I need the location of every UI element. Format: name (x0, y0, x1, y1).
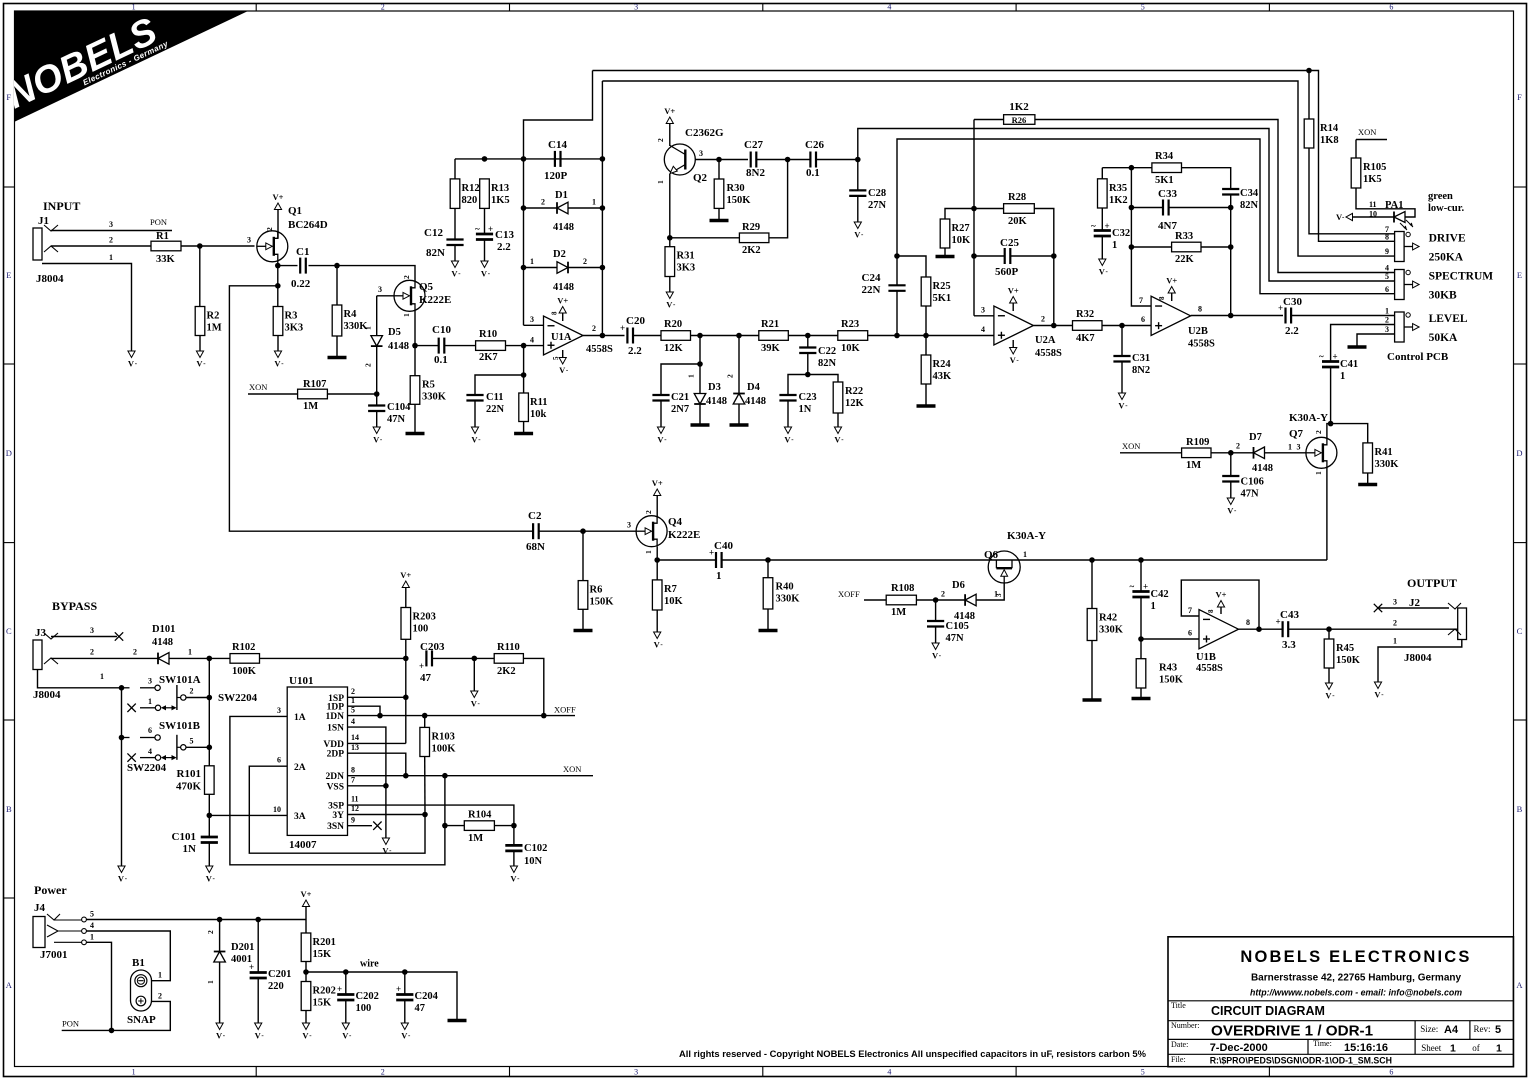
svg-text:C202: C202 (356, 991, 379, 1002)
potentiometer connector PA1 DRIVE (1395, 232, 1466, 264)
V- power (784, 427, 794, 445)
svg-text:3: 3 (699, 149, 703, 158)
junction (971, 253, 977, 259)
capacitor C104 (368, 402, 411, 425)
wire (376, 411, 378, 427)
wire (484, 208, 486, 234)
wire (208, 815, 210, 837)
transistor Q2 (664, 144, 695, 175)
V- power (216, 1023, 226, 1041)
svg-text:Q1: Q1 (288, 205, 302, 217)
wire (454, 245, 456, 261)
capacitor C13 (475, 224, 493, 240)
resistor R24 (921, 355, 952, 384)
border column divider (762, 4, 764, 12)
V- power (401, 1023, 411, 1041)
svg-text:U101: U101 (289, 675, 313, 687)
resistor R22 (833, 382, 864, 413)
svg-text:3: 3 (995, 593, 1003, 597)
svg-text:R:\$PRO\PEDS\DSGN\ODR-1\OD-1_S: R:\$PRO\PEDS\DSGN\ODR-1\OD-1_SM.SCH (1210, 1056, 1392, 1066)
svg-text:R11: R11 (530, 397, 548, 408)
svg-text:CIRCUIT DIAGRAM: CIRCUIT DIAGRAM (1211, 1004, 1325, 1018)
svg-text:+: + (1333, 352, 1338, 362)
ground (574, 629, 593, 633)
svg-text:1K5: 1K5 (1363, 174, 1382, 185)
svg-text:R109: R109 (1186, 437, 1209, 448)
svg-text:100K: 100K (232, 666, 257, 677)
svg-text:C28: C28 (868, 188, 886, 199)
svg-text:D6: D6 (952, 580, 965, 591)
svg-text:2: 2 (1385, 316, 1389, 325)
svg-text:F: F (6, 92, 11, 102)
wire (305, 907, 307, 920)
svg-text:4: 4 (90, 921, 94, 930)
junction (511, 823, 517, 829)
wire (1288, 628, 1329, 630)
wire (1141, 638, 1199, 640)
svg-text:V+: V+ (273, 192, 284, 202)
svg-text:C31: C31 (1132, 353, 1150, 364)
svg-text:1K2: 1K2 (1109, 195, 1128, 206)
junction (736, 333, 742, 339)
resistor R14 (1304, 119, 1339, 148)
wire (513, 826, 515, 846)
svg-text:R24: R24 (933, 359, 952, 370)
svg-text:R41: R41 (1375, 447, 1393, 458)
wire (230, 716, 445, 864)
capacitor C204 (396, 984, 439, 1014)
wire (656, 560, 658, 580)
svg-text:C106: C106 (1241, 477, 1264, 488)
svg-text:4148: 4148 (1252, 463, 1273, 474)
svg-text:R29: R29 (742, 222, 760, 233)
svg-text:Q6: Q6 (984, 549, 999, 561)
V- power (302, 1023, 312, 1041)
junction (805, 333, 811, 339)
svg-text:4: 4 (530, 336, 534, 345)
no-connect (373, 822, 381, 830)
svg-text:Q5: Q5 (419, 281, 434, 293)
diode D3 (694, 382, 727, 407)
svg-text:C21: C21 (671, 392, 689, 403)
svg-text:C101: C101 (172, 831, 196, 843)
wire (1211, 452, 1254, 454)
svg-text:2: 2 (206, 930, 215, 934)
svg-text:+: + (249, 962, 254, 972)
svg-text:1M: 1M (891, 607, 906, 618)
svg-text:U1B: U1B (1196, 652, 1216, 663)
resistor R1 (151, 231, 181, 265)
wire (695, 159, 748, 161)
capacitor C22 (799, 346, 836, 369)
junction (716, 157, 722, 163)
wire (1102, 325, 1151, 327)
svg-text:R107: R107 (303, 379, 326, 390)
svg-text:27N: 27N (868, 200, 887, 211)
svg-text:1SN: 1SN (327, 724, 344, 734)
svg-text:File:: File: (1171, 1055, 1186, 1064)
wire (348, 814, 426, 816)
svg-text:13: 13 (351, 743, 359, 752)
switch SW101B (122, 720, 201, 760)
svg-text:82N: 82N (1240, 200, 1259, 211)
wire (348, 775, 594, 777)
resistor R32 (1073, 309, 1103, 344)
wire (1230, 195, 1232, 316)
svg-text:2K2: 2K2 (497, 666, 516, 677)
svg-text:R33: R33 (1175, 231, 1193, 242)
junction (1138, 557, 1144, 563)
svg-text:0.22: 0.22 (291, 278, 311, 290)
svg-text:47: 47 (420, 672, 432, 684)
capacitor C202 (337, 984, 379, 1014)
junction (521, 343, 527, 349)
svg-text:J4: J4 (34, 902, 46, 914)
svg-text:3: 3 (1385, 325, 1389, 334)
resistor R3 (273, 307, 303, 336)
svg-text:1M: 1M (303, 401, 318, 412)
svg-text:1: 1 (1151, 601, 1156, 612)
svg-text:R103: R103 (432, 731, 455, 742)
wire (219, 920, 221, 952)
svg-text:OUTPUT: OUTPUT (1407, 576, 1457, 590)
junction (894, 253, 900, 259)
diode D2 (553, 249, 574, 293)
wire (787, 401, 789, 428)
wire (896, 291, 898, 336)
border column divider (1015, 4, 1017, 12)
wire (208, 794, 210, 815)
svg-text:9: 9 (1385, 247, 1389, 256)
wire (1101, 168, 1103, 179)
wire (718, 208, 720, 219)
svg-text:D3: D3 (708, 382, 721, 393)
svg-text:R40: R40 (776, 582, 794, 593)
svg-text:K222E: K222E (419, 294, 451, 306)
svg-text:2: 2 (351, 687, 355, 696)
svg-text:1: 1 (656, 180, 665, 184)
wire (1035, 120, 1395, 273)
junction (1228, 205, 1234, 211)
resistor R28 (1004, 192, 1035, 227)
wire (1091, 641, 1093, 699)
svg-text:R2: R2 (207, 311, 220, 322)
svg-text:1: 1 (1393, 637, 1397, 646)
junction (1129, 244, 1135, 250)
svg-text:D: D (1516, 448, 1522, 458)
svg-text:R7: R7 (664, 584, 677, 595)
svg-text:3: 3 (90, 626, 94, 635)
wire (309, 265, 338, 267)
svg-text:1: 1 (592, 198, 596, 207)
svg-text:330K: 330K (422, 392, 447, 403)
svg-text:R104: R104 (468, 810, 492, 821)
junction (412, 343, 418, 349)
svg-text:5K1: 5K1 (1155, 175, 1174, 186)
wire (1131, 168, 1151, 306)
svg-text:39K: 39K (761, 343, 781, 354)
capacitor C203 (419, 650, 432, 671)
svg-text:C2362G: C2362G (685, 127, 724, 139)
diode D1 (553, 190, 574, 233)
wire (718, 160, 720, 180)
junction (600, 205, 606, 211)
no-connect (127, 704, 135, 712)
svg-text:2: 2 (1041, 315, 1045, 324)
wire (974, 315, 994, 317)
wire (1331, 424, 1368, 443)
wire (455, 158, 602, 160)
svg-text:C: C (6, 626, 12, 636)
svg-text:J1: J1 (38, 215, 49, 227)
resistor R35 (1098, 179, 1128, 208)
wire (1355, 140, 1357, 159)
svg-text:2: 2 (133, 648, 137, 657)
svg-text:1: 1 (644, 550, 653, 554)
svg-text:8N2: 8N2 (746, 167, 765, 179)
svg-text:470K: 470K (176, 781, 202, 793)
V- power (654, 632, 664, 650)
resistor R2 (195, 307, 222, 336)
svg-text:R22: R22 (845, 386, 863, 397)
wire (277, 261, 279, 265)
connector J3 (33, 627, 61, 701)
svg-text:C204: C204 (415, 991, 439, 1002)
svg-text:~: ~ (1130, 582, 1135, 592)
svg-text:Barnerstrasse 42, 22765 Hambur: Barnerstrasse 42, 22765 Hamburg, Germany (1251, 973, 1462, 984)
svg-text:1: 1 (716, 570, 722, 582)
wire (1367, 473, 1369, 483)
svg-text:120P: 120P (544, 170, 568, 182)
svg-text:XON: XON (1122, 441, 1140, 451)
capacitor C12 (446, 240, 463, 246)
svg-text:V+: V+ (664, 106, 675, 116)
capacitor C33 (1163, 200, 1169, 216)
svg-text:330K: 330K (1375, 459, 1400, 470)
wire (1378, 607, 1449, 609)
svg-text:3: 3 (981, 306, 985, 315)
op-amp U2A (994, 306, 1062, 359)
svg-text:2K2: 2K2 (742, 245, 761, 256)
wire (864, 599, 886, 601)
svg-text:3: 3 (378, 285, 382, 294)
resistor R13 (480, 179, 510, 209)
transistor Q6 (988, 551, 1020, 583)
svg-text:C25: C25 (1000, 237, 1019, 249)
junction (923, 333, 929, 339)
svg-text:3: 3 (1297, 443, 1301, 452)
svg-text:47N: 47N (1241, 489, 1260, 500)
wire (974, 208, 1004, 210)
wire (348, 786, 386, 838)
svg-text:7-Dec-2000: 7-Dec-2000 (1210, 1042, 1268, 1054)
wire (278, 265, 298, 267)
svg-text:2: 2 (941, 590, 945, 599)
svg-text:1: 1 (1385, 307, 1389, 316)
wire (973, 120, 975, 316)
capacitor C105 (927, 621, 969, 644)
svg-text:2: 2 (592, 324, 596, 333)
svg-text:R32: R32 (1076, 309, 1094, 320)
V- power (274, 351, 284, 369)
V- power (128, 351, 138, 369)
wire (506, 345, 544, 347)
resistor R43 (1136, 659, 1184, 688)
V- power (451, 261, 461, 279)
svg-text:F: F (1517, 92, 1522, 102)
capacitor C23 (779, 392, 816, 415)
svg-text:D5: D5 (388, 327, 401, 338)
svg-text:4148: 4148 (553, 282, 574, 293)
junction (403, 695, 409, 701)
connector J2 (1404, 597, 1467, 664)
svg-text:Number:: Number: (1171, 1021, 1199, 1030)
wire (1121, 362, 1123, 394)
svg-text:~: ~ (475, 224, 480, 234)
wire (306, 972, 457, 1019)
junction (600, 333, 606, 339)
wire (277, 336, 279, 352)
junction (933, 597, 939, 603)
wire (656, 496, 658, 517)
svg-text:10K: 10K (841, 343, 861, 354)
junction (697, 333, 703, 339)
wire (1328, 629, 1330, 639)
svg-text:15K: 15K (313, 949, 333, 960)
junction (383, 783, 389, 789)
svg-text:OVERDRIVE 1 / ODR-1: OVERDRIVE 1 / ODR-1 (1211, 1023, 1374, 1040)
capacitor C28 (849, 188, 886, 211)
resistor R107 (298, 379, 328, 412)
svg-text:2DN: 2DN (326, 772, 345, 782)
ground (1132, 697, 1151, 701)
junction (1119, 323, 1125, 329)
svg-text:1: 1 (1023, 550, 1027, 559)
svg-text:2: 2 (583, 257, 587, 266)
svg-text:1: 1 (1496, 1043, 1502, 1055)
junction (765, 557, 771, 563)
LED PA1 (1394, 212, 1413, 231)
wire (897, 256, 926, 277)
wire (1353, 188, 1416, 217)
wire (404, 972, 406, 995)
capacitor C11 (466, 392, 504, 415)
svg-text:2: 2 (1393, 619, 1397, 628)
wire (1201, 246, 1231, 248)
svg-text:50KA: 50KA (1429, 332, 1458, 344)
wire (305, 920, 307, 934)
wire (669, 124, 671, 146)
svg-text:4: 4 (148, 747, 152, 756)
wire (345, 1000, 347, 1023)
wire (583, 335, 625, 337)
svg-text:C105: C105 (946, 621, 969, 632)
svg-text:3: 3 (530, 315, 534, 324)
wire (473, 658, 475, 691)
resistor R109 (1182, 437, 1211, 471)
V- power (206, 866, 216, 884)
svg-text:Q7: Q7 (1289, 428, 1304, 440)
wire (896, 256, 898, 285)
svg-text:~: ~ (1091, 221, 1096, 231)
svg-text:BC264D: BC264D (288, 219, 328, 231)
svg-text:PA1: PA1 (1385, 200, 1403, 211)
V+ power (664, 106, 675, 124)
wire (788, 335, 838, 337)
wire (445, 825, 464, 827)
wire (1010, 255, 1054, 257)
svg-text:1: 1 (100, 672, 104, 681)
svg-text:82N: 82N (426, 247, 445, 259)
junction (422, 812, 428, 818)
svg-text:D2: D2 (553, 249, 566, 260)
svg-text:U1A: U1A (551, 332, 572, 343)
resistor R41 (1363, 443, 1399, 473)
svg-text:1M: 1M (468, 833, 483, 844)
ground (917, 404, 936, 408)
svg-text:R5: R5 (422, 380, 435, 391)
svg-text:B: B (1517, 804, 1523, 814)
wire (523, 422, 525, 433)
svg-text:10k: 10k (530, 409, 547, 420)
svg-text:3: 3 (634, 3, 638, 12)
wire (699, 364, 701, 394)
wire (1265, 452, 1306, 454)
junction (971, 206, 977, 212)
wire (523, 159, 525, 325)
wire (768, 559, 1327, 561)
svg-text:XON: XON (249, 382, 267, 392)
capacitor C43 (1276, 617, 1289, 638)
V- power (666, 292, 676, 310)
wire (669, 238, 671, 247)
svg-text:2: 2 (541, 198, 545, 207)
junction (275, 283, 281, 289)
junction (207, 745, 213, 751)
svg-text:1M: 1M (1186, 460, 1201, 471)
svg-text:green: green (1428, 191, 1453, 202)
svg-text:8: 8 (1198, 305, 1202, 314)
svg-text:BYPASS: BYPASS (52, 599, 97, 613)
junction (119, 685, 125, 691)
junction (343, 969, 349, 975)
op-amp U1B (1196, 610, 1239, 674)
capacitor C106 (1222, 476, 1264, 500)
svg-text:3: 3 (627, 521, 631, 530)
wire (524, 267, 603, 269)
junction (1326, 626, 1332, 632)
svg-text:12K: 12K (845, 398, 865, 409)
ground (1358, 483, 1377, 487)
svg-text:XON: XON (563, 764, 581, 774)
resistor R31 (665, 247, 695, 277)
resistor R202 (301, 982, 336, 1011)
svg-text:R102: R102 (232, 642, 255, 653)
wire (181, 245, 255, 247)
junction (600, 265, 606, 271)
wire (345, 972, 347, 995)
svg-text:68N: 68N (526, 541, 545, 553)
svg-text:C24: C24 (862, 272, 881, 284)
border column divider (1268, 4, 1270, 12)
wire (916, 599, 935, 601)
wire (405, 658, 407, 743)
svg-text:~: ~ (1319, 352, 1324, 362)
svg-text:5: 5 (552, 356, 560, 360)
wire (1140, 688, 1142, 697)
wire (582, 531, 584, 580)
junction (697, 361, 703, 367)
